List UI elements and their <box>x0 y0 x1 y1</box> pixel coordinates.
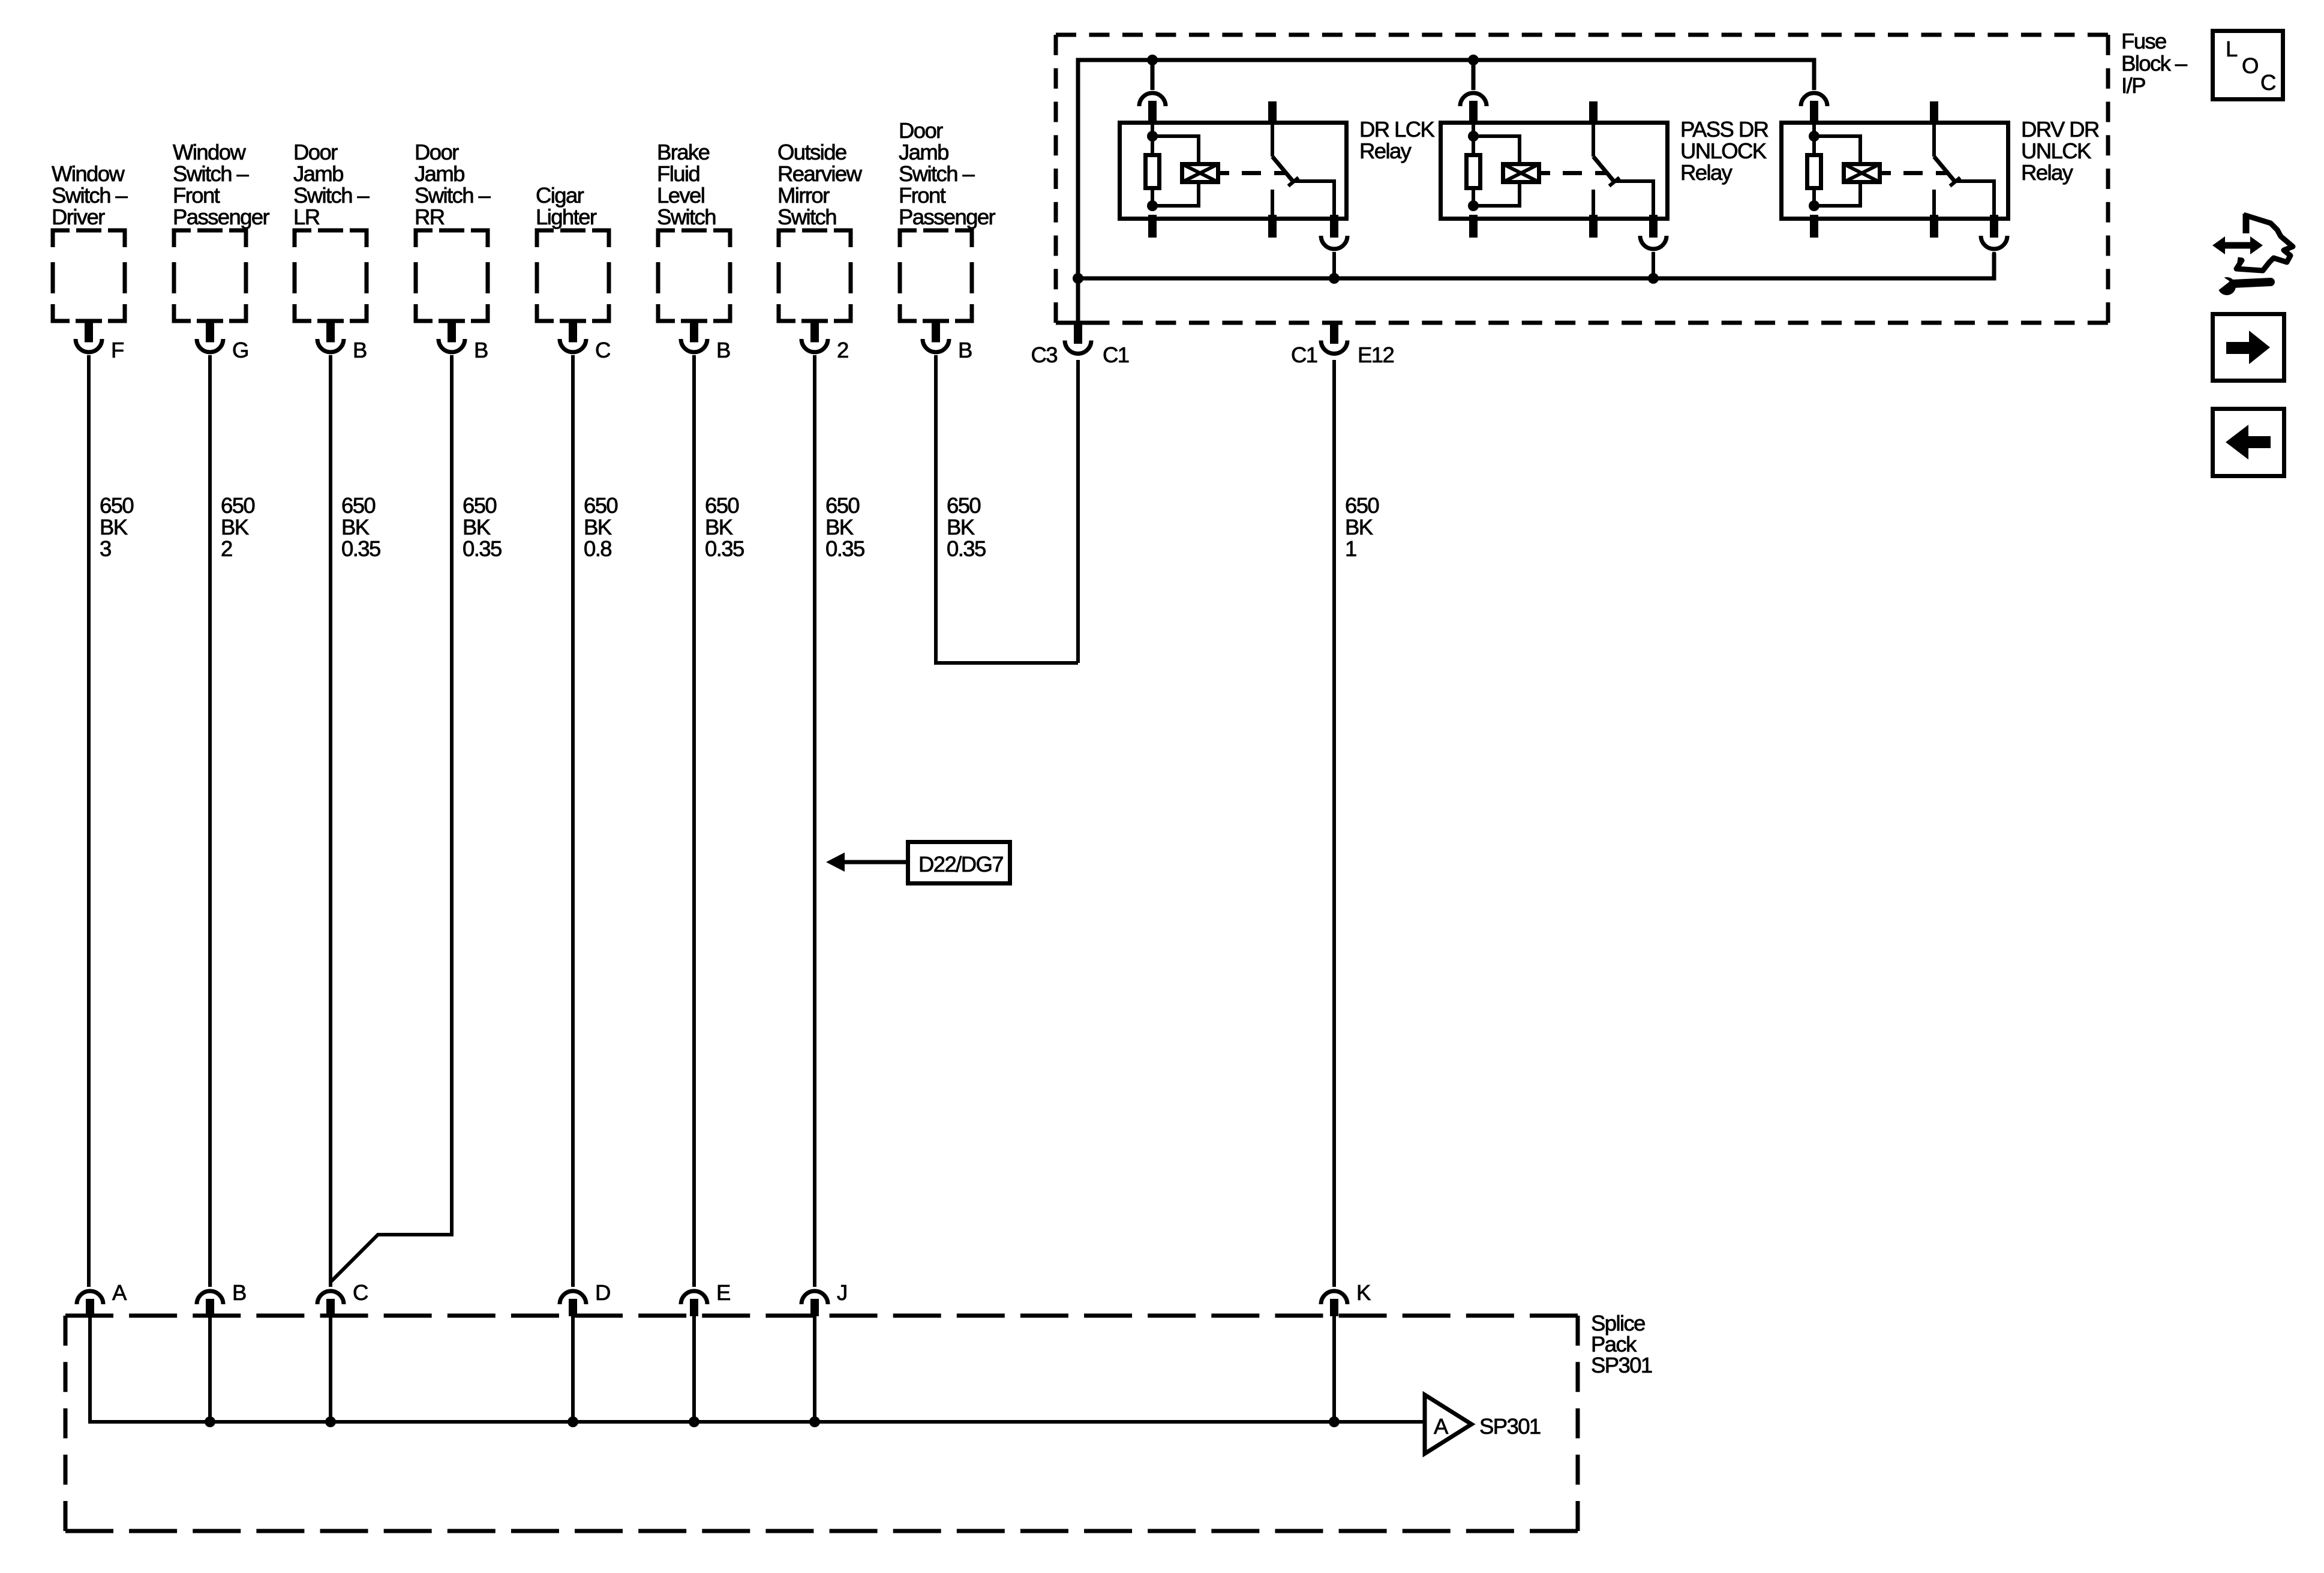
wire value label 650 BK 0.35 <box>825 493 864 561</box>
wire value label 650 BK 0.8 <box>584 493 617 561</box>
svg-text:Jamb: Jamb <box>293 161 343 186</box>
wire 650 BK 1 from E12 to splice pack K <box>1332 360 1336 1287</box>
connector pin 2 of Outside Rearview Mirror Switch <box>801 323 848 363</box>
splice pack SP301 dashed outline <box>65 1316 1578 1531</box>
wire 650 BK 0.35 from x=551 <box>329 355 332 1287</box>
connector splice pack pin J <box>801 1280 847 1316</box>
svg-text:I/P: I/P <box>2121 73 2145 98</box>
svg-text:0.35: 0.35 <box>463 536 502 561</box>
svg-text:DRV DR: DRV DR <box>2021 117 2099 142</box>
svg-text:BK: BK <box>947 515 975 539</box>
node: splice junction x=1157 <box>689 1416 699 1427</box>
connector pin B of Brake Fluid Level Switch <box>681 323 730 363</box>
svg-text:Fluid: Fluid <box>657 161 699 186</box>
wire value label 650 BK 1 <box>1345 493 1379 561</box>
wire 650 BK 0.35 from x=753 <box>331 355 452 1282</box>
wire value label 650 BK 3 <box>100 493 133 561</box>
svg-text:B: B <box>958 338 972 362</box>
connector splice pack pin B <box>197 1280 246 1316</box>
svg-text:C1: C1 <box>1291 343 1317 367</box>
icon: left arrow box <box>2213 409 2284 476</box>
svg-text:3: 3 <box>100 536 111 561</box>
svg-text:BK: BK <box>705 515 733 539</box>
svg-text:B: B <box>716 338 730 362</box>
icon: right arrow box <box>2213 314 2284 381</box>
svg-text:L: L <box>2226 37 2238 61</box>
splice output triangle A SP301 <box>1425 1395 1541 1454</box>
svg-text:Cigar: Cigar <box>536 183 584 208</box>
connector C1/E12 at fuse block <box>1291 325 1394 367</box>
svg-text:Switch –: Switch – <box>293 183 370 208</box>
component box: Window Switch - Driver <box>52 161 128 321</box>
svg-text:O: O <box>2242 53 2258 78</box>
svg-text:650: 650 <box>463 493 496 518</box>
node: splice junction x=1358 <box>809 1416 820 1427</box>
svg-text:Jamb: Jamb <box>899 140 948 164</box>
svg-text:Lighter: Lighter <box>536 205 597 229</box>
svg-text:UNLCK: UNLCK <box>2021 139 2091 163</box>
svg-text:E12: E12 <box>1358 343 1394 367</box>
wire value label 650 BK 0.35 <box>463 493 502 561</box>
svg-text:650: 650 <box>1345 493 1379 518</box>
svg-text:Door: Door <box>415 140 459 164</box>
node: splice junction x=955 <box>568 1416 578 1427</box>
svg-text:Brake: Brake <box>657 140 710 164</box>
icon: hand with double arrow and wrench (service info) <box>2212 214 2293 295</box>
svg-text:0.35: 0.35 <box>341 536 380 561</box>
icon: LOC box <box>2213 31 2283 100</box>
svg-text:1: 1 <box>1345 536 1356 561</box>
svg-text:RR: RR <box>415 205 445 229</box>
svg-text:BK: BK <box>100 515 128 539</box>
svg-text:K: K <box>1356 1280 1371 1305</box>
connector splice pack pin D <box>560 1280 610 1316</box>
component box: Outside Rearview Mirror Switch <box>777 140 863 321</box>
fuse block border dash crossing C3 stub <box>1065 321 1091 325</box>
connector splice pack pin K <box>1321 1280 1371 1316</box>
wire 650 BK 2 from x=350 <box>208 355 212 1287</box>
wire 650 BK 0.35 from x=1358 <box>813 355 816 1287</box>
svg-text:LR: LR <box>293 205 320 229</box>
svg-text:650: 650 <box>584 493 617 518</box>
svg-text:DR LCK: DR LCK <box>1359 117 1435 142</box>
svg-text:Door: Door <box>899 118 943 143</box>
svg-text:Window: Window <box>173 140 246 164</box>
svg-text:Block –: Block – <box>2121 51 2188 76</box>
node: bus junction relay 1 <box>1147 55 1158 65</box>
wire 650 BK 0.35 from x=1560 <box>936 355 1078 663</box>
svg-text:Outside: Outside <box>777 140 846 164</box>
wire 650 BK 0.8 from x=955 <box>571 355 575 1287</box>
fuse block I/P dashed outline <box>1056 35 2108 323</box>
svg-text:G: G <box>232 338 248 362</box>
svg-text:Fuse: Fuse <box>2121 29 2166 53</box>
svg-text:Relay: Relay <box>1359 139 1412 163</box>
node: bottom bus junction relay2 output <box>1648 273 1659 284</box>
svg-text:Front: Front <box>173 183 220 208</box>
svg-text:B: B <box>232 1280 246 1305</box>
component box: Window Switch - Front Passenger <box>173 140 270 321</box>
svg-text:BK: BK <box>221 515 249 539</box>
svg-text:Jamb: Jamb <box>415 161 464 186</box>
svg-text:E: E <box>716 1280 730 1305</box>
node: splice junction x=2224 <box>1329 1416 1340 1427</box>
wire inside splice pack from pin E <box>692 1316 696 1422</box>
svg-text:Passenger: Passenger <box>173 205 270 229</box>
svg-text:UNLOCK: UNLOCK <box>1680 139 1767 163</box>
node: bottom bus junction left <box>1073 273 1083 284</box>
svg-text:C3: C3 <box>1031 343 1058 367</box>
svg-text:Switch –: Switch – <box>899 161 975 186</box>
label: DRV DR UNLCK Relay <box>2021 117 2099 185</box>
svg-text:BK: BK <box>825 515 854 539</box>
wire value label 650 BK 0.35 <box>341 493 380 561</box>
svg-text:J: J <box>837 1280 847 1305</box>
svg-text:Front: Front <box>899 183 946 208</box>
svg-text:B: B <box>353 338 367 362</box>
connector pin B of Door Jamb Switch - LR <box>317 323 367 363</box>
svg-text:SP301: SP301 <box>1591 1353 1652 1377</box>
svg-text:Switch: Switch <box>777 205 836 229</box>
svg-text:0.35: 0.35 <box>705 536 744 561</box>
svg-text:BK: BK <box>1345 515 1373 539</box>
wire 650 BK 3 from x=148 <box>87 355 91 1287</box>
wire inside splice pack from pin D <box>571 1316 575 1422</box>
svg-text:F: F <box>111 338 124 362</box>
component box: Door Jamb Switch - RR <box>415 140 491 321</box>
component box: Brake Fluid Level Switch <box>657 140 730 321</box>
wire: bottom return bus inside fuse block <box>1078 253 1994 278</box>
wire 650 BK 0.35 from x=1157 <box>692 355 696 1287</box>
svg-text:D22/DG7: D22/DG7 <box>918 852 1003 876</box>
svg-text:Driver: Driver <box>52 205 105 229</box>
label box D22/DG7 with arrow <box>826 842 1010 884</box>
svg-text:2: 2 <box>837 338 848 362</box>
svg-text:SP301: SP301 <box>1479 1414 1541 1439</box>
svg-text:Passenger: Passenger <box>899 205 996 229</box>
svg-text:C1: C1 <box>1103 343 1129 367</box>
label: Splice Pack SP301 <box>1591 1311 1652 1377</box>
relay DRV DR UNLCK Relay <box>1782 60 2008 278</box>
wire inside splice pack from pin C <box>329 1316 332 1422</box>
svg-text:Level: Level <box>657 183 704 208</box>
svg-text:Relay: Relay <box>2021 160 2074 185</box>
svg-text:BK: BK <box>463 515 491 539</box>
node: splice junction x=551 <box>325 1416 336 1427</box>
node: bottom bus junction relay1 output <box>1329 273 1340 284</box>
relay DR LCK Relay <box>1120 60 1348 278</box>
svg-text:A: A <box>1434 1414 1449 1439</box>
wire from C3/C1 down to Door Jamb Front Passenger wire <box>1076 360 1080 663</box>
svg-text:Relay: Relay <box>1680 160 1733 185</box>
relay PASS DR UNLOCK Relay <box>1441 60 1668 278</box>
svg-text:Rearview: Rearview <box>777 161 863 186</box>
connector pin G of Window Switch - Front Passenger <box>197 323 248 363</box>
svg-text:650: 650 <box>341 493 375 518</box>
svg-text:650: 650 <box>705 493 738 518</box>
wire: top feed bus inside fuse block <box>1078 60 1814 325</box>
svg-text:650: 650 <box>221 493 254 518</box>
wire: splice bus SP301 <box>90 1316 1424 1422</box>
svg-text:Door: Door <box>293 140 338 164</box>
connector pin B of Door Jamb Switch - Front Passenger <box>923 323 972 363</box>
label: PASS DR UNLOCK Relay <box>1680 117 1768 185</box>
node: splice junction x=350 <box>205 1416 215 1427</box>
svg-text:A: A <box>112 1280 127 1305</box>
wire inside splice pack from pin B <box>208 1316 212 1422</box>
wire inside splice pack from pin J <box>813 1316 816 1422</box>
svg-text:Switch –: Switch – <box>415 183 491 208</box>
connector pin B of Door Jamb Switch - RR <box>439 323 488 363</box>
svg-text:650: 650 <box>947 493 980 518</box>
connector pin C of Cigar Lighter <box>560 323 610 363</box>
svg-text:2: 2 <box>221 536 232 561</box>
node: bus junction relay 2 <box>1468 55 1479 65</box>
label: DR LCK Relay <box>1359 117 1435 163</box>
wire inside splice pack from pin K <box>1332 1316 1336 1422</box>
wire value label 650 BK 0.35 <box>947 493 986 561</box>
label: Fuse Block - I/P <box>2121 29 2188 98</box>
svg-text:B: B <box>474 338 488 362</box>
svg-text:C: C <box>2260 70 2275 95</box>
wire value label 650 BK 2 <box>221 493 254 561</box>
connector splice pack pin E <box>681 1280 730 1316</box>
svg-text:Switch –: Switch – <box>173 161 249 186</box>
svg-text:Mirror: Mirror <box>777 183 830 208</box>
component box: Door Jamb Switch - LR <box>293 140 370 321</box>
svg-text:0.35: 0.35 <box>825 536 864 561</box>
svg-text:Switch: Switch <box>657 205 716 229</box>
svg-text:C: C <box>595 338 610 362</box>
svg-text:0.8: 0.8 <box>584 536 611 561</box>
svg-text:0.35: 0.35 <box>947 536 986 561</box>
connector pin F of Window Switch - Driver <box>76 323 124 363</box>
svg-text:650: 650 <box>100 493 133 518</box>
wire value label 650 BK 0.35 <box>705 493 744 561</box>
svg-text:BK: BK <box>584 515 612 539</box>
connector C3/C1 at fuse block <box>1031 325 1129 367</box>
svg-text:C: C <box>353 1280 368 1305</box>
svg-text:Switch –: Switch – <box>52 183 128 208</box>
svg-text:Window: Window <box>52 161 125 186</box>
svg-text:D: D <box>595 1280 610 1305</box>
connector splice pack pin A <box>77 1280 127 1316</box>
component box: Door Jamb Switch - Front Passenger <box>899 118 996 321</box>
connector splice pack pin C <box>317 1280 368 1316</box>
component box: Cigar Lighter <box>536 183 609 321</box>
svg-text:BK: BK <box>341 515 370 539</box>
svg-text:650: 650 <box>825 493 859 518</box>
svg-text:PASS DR: PASS DR <box>1680 117 1768 142</box>
